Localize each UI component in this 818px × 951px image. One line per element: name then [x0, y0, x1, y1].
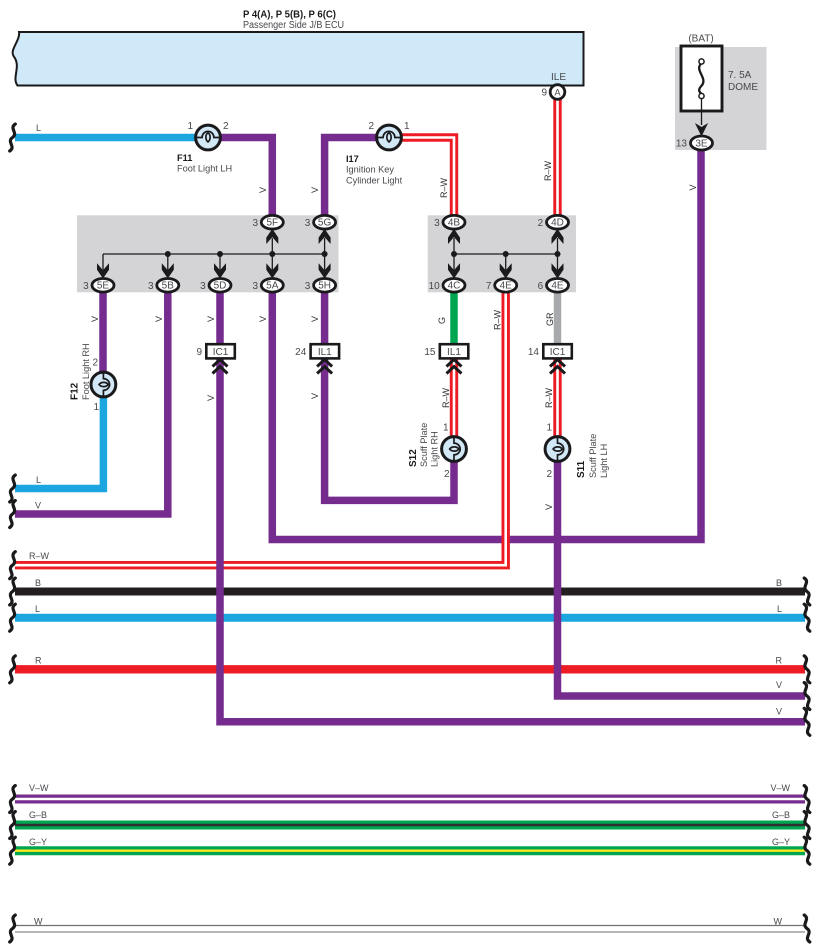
connector IC1 pin9: [196, 344, 234, 358]
svg-text:IC1: IC1: [550, 347, 566, 358]
wire F11 pin2 to 5F (V, purple): [220, 138, 272, 217]
connector 5G: [305, 215, 336, 229]
svg-text:B: B: [776, 578, 782, 588]
svg-text:L: L: [36, 475, 41, 485]
connector IC1 pin14: [528, 344, 572, 358]
svg-text:V: V: [35, 501, 41, 511]
break symbol right, bus R: [804, 656, 810, 683]
break symbol right, bus V lower: [804, 708, 810, 735]
wire 4E pin6 to IC1 (GR, gray): [554, 291, 562, 345]
svg-text:G–B: G–B: [772, 810, 790, 820]
lamp S11: [545, 437, 570, 462]
wire stub to 5H: [324, 254, 326, 270]
svg-text:G–B: G–B: [29, 810, 47, 820]
wire ILE A to 4D (R-W): [553, 99, 561, 216]
svg-text:7. 5A: 7. 5A: [728, 70, 752, 81]
svg-text:4E: 4E: [551, 281, 564, 292]
connector IL1 pin15: [424, 344, 468, 358]
wire stub to 4E pin6: [557, 254, 559, 270]
svg-text:S11: S11: [576, 460, 587, 478]
lamp S12: [442, 437, 467, 462]
svg-text:GR: GR: [545, 312, 555, 326]
break symbol left, bus W: [10, 915, 16, 942]
break symbol left, bus L: [10, 604, 16, 631]
junction dot 5B branch: [165, 251, 171, 257]
break symbol left, bus V-W: [10, 786, 16, 813]
svg-text:W: W: [34, 917, 43, 927]
svg-text:DOME: DOME: [728, 82, 758, 93]
break symbol right, bus G-Y: [804, 837, 810, 864]
arrow into 5H: [319, 263, 331, 278]
connector IL1 pin24: [295, 344, 339, 358]
connector 4E pin6: [538, 279, 569, 293]
chevron below IC1 pin9: [213, 360, 228, 374]
svg-text:3: 3: [305, 218, 311, 229]
svg-text:24: 24: [295, 347, 307, 358]
svg-text:L: L: [36, 123, 41, 133]
arrow into 4E pin6: [552, 263, 564, 278]
wire bus G-B: [15, 821, 805, 830]
svg-text:5D: 5D: [214, 281, 227, 292]
break symbol right, bus V-W: [804, 786, 810, 813]
node A circle (ILE): [541, 85, 564, 100]
wire 5A to DOME fuse (V, purple): [272, 149, 701, 540]
arrow into 5D: [214, 263, 226, 278]
wire bus G-Y: [15, 846, 805, 855]
svg-text:V: V: [310, 187, 320, 193]
connector block right (gray): [428, 215, 576, 292]
svg-text:V: V: [206, 395, 216, 401]
svg-text:4C: 4C: [448, 281, 461, 292]
svg-text:V: V: [154, 316, 164, 322]
svg-text:2: 2: [546, 469, 552, 480]
arrow into 4C: [448, 263, 460, 278]
svg-text:3: 3: [83, 281, 89, 292]
junction dot 4D/4E branch: [555, 251, 561, 257]
svg-text:G: G: [437, 317, 447, 324]
svg-text:W: W: [774, 917, 783, 927]
fuse block background (gray): [675, 47, 767, 150]
wire stub to 5G: [324, 238, 326, 254]
chevron below IL1 pin15: [447, 360, 462, 374]
svg-text:L: L: [35, 604, 40, 614]
wire bus B (black): [15, 588, 805, 596]
svg-text:13: 13: [676, 139, 688, 150]
svg-text:4B: 4B: [448, 218, 461, 229]
svg-text:1: 1: [404, 121, 410, 132]
svg-text:5F: 5F: [266, 218, 278, 229]
svg-text:1: 1: [443, 423, 449, 434]
wire F12 pin1 to left edge (L, blue): [15, 397, 103, 489]
wire bus L (blue): [15, 614, 805, 622]
wire stub to 5F: [271, 238, 273, 254]
svg-text:R–W: R–W: [441, 387, 451, 408]
connector 4B: [434, 215, 465, 229]
break symbol left, bus G-Y: [10, 837, 16, 864]
svg-text:V: V: [90, 316, 100, 322]
svg-text:P 4(A), P 5(B), P 6(C): P 4(A), P 5(B), P 6(C): [243, 10, 336, 21]
chevron below IL1 pin24: [317, 360, 332, 374]
svg-text:V: V: [258, 187, 268, 193]
junction dot 4E pin7 branch: [503, 251, 509, 257]
svg-text:R: R: [35, 656, 42, 666]
svg-text:IC1: IC1: [213, 347, 229, 358]
svg-text:G–Y: G–Y: [772, 837, 790, 847]
svg-text:3: 3: [252, 218, 258, 229]
svg-text:1: 1: [546, 423, 552, 434]
svg-text:IL1: IL1: [318, 347, 332, 358]
svg-text:Passenger Side J/B ECU: Passenger Side J/B ECU: [243, 20, 344, 31]
svg-text:3: 3: [148, 281, 154, 292]
wire 4E pin7 to left edge (R-W): [15, 291, 506, 565]
wire IL1 to S12 pin1 (R-W): [450, 358, 458, 437]
svg-text:2: 2: [92, 358, 98, 369]
svg-text:Ignition Key: Ignition Key: [346, 165, 394, 175]
svg-text:V: V: [688, 184, 698, 190]
connector 5E: [83, 279, 114, 293]
svg-text:Scuff Plate: Scuff Plate: [588, 434, 598, 478]
svg-text:Light LH: Light LH: [599, 444, 609, 478]
connector 5F: [252, 215, 283, 229]
arrow into 4E pin7: [500, 263, 512, 278]
junction dot 5G/5H branch: [322, 251, 328, 257]
wire internal bus left block: [103, 253, 325, 255]
svg-text:Cylinder Light: Cylinder Light: [346, 176, 403, 186]
wire IC1 to S11 pin1 (R-W): [553, 358, 561, 437]
svg-text:Scuff Plate: Scuff Plate: [419, 423, 429, 467]
svg-text:V: V: [258, 316, 268, 322]
connector 4D: [538, 215, 569, 229]
arrow into 5B: [162, 263, 174, 278]
svg-text:I17: I17: [346, 154, 359, 164]
svg-text:G–Y: G–Y: [29, 837, 47, 847]
arrow into 5E: [97, 263, 109, 278]
break symbol right, bus V upper: [804, 683, 810, 710]
connector 3E: [676, 136, 713, 150]
svg-text:Foot Light LH: Foot Light LH: [177, 164, 232, 174]
arrow into 5A: [266, 263, 278, 278]
arrow into 5G: [319, 229, 331, 244]
svg-text:Light RH: Light RH: [430, 431, 440, 467]
svg-text:B: B: [35, 578, 41, 588]
svg-text:V: V: [206, 316, 216, 322]
svg-text:5H: 5H: [318, 281, 331, 292]
svg-text:R–W: R–W: [493, 309, 503, 330]
wire S11 pin2 to right edge (V, purple): [558, 461, 806, 696]
svg-text:R–W: R–W: [543, 160, 553, 181]
svg-text:3E: 3E: [695, 138, 708, 149]
connector 5D: [200, 279, 231, 293]
svg-text:L: L: [777, 604, 782, 614]
wire stub to 5D: [219, 254, 221, 270]
wire stub to 4E pin7: [505, 254, 507, 270]
svg-text:R–W: R–W: [544, 387, 554, 408]
wire bus R (red): [15, 665, 805, 673]
svg-text:3: 3: [305, 281, 311, 292]
wire internal bus right block: [454, 253, 558, 255]
svg-text:V: V: [776, 680, 782, 690]
break symbol left, bus R: [10, 656, 16, 683]
svg-text:R–W: R–W: [439, 177, 449, 198]
svg-text:3: 3: [434, 218, 440, 229]
svg-text:2: 2: [444, 469, 450, 480]
wire 4C to IL1 (G, green): [450, 291, 458, 345]
wire I17 pin1 to 4B (R-W): [401, 138, 454, 217]
svg-text:A: A: [554, 88, 560, 98]
junction dot 5F/5A branch: [269, 251, 275, 257]
break symbol left, wire L from F12: [10, 475, 16, 502]
break symbol left, wire L top: [10, 124, 16, 151]
break symbol right, bus W: [804, 915, 810, 942]
svg-text:3: 3: [252, 281, 258, 292]
svg-text:R: R: [776, 656, 783, 666]
break symbol right, bus B: [804, 578, 810, 605]
wire stub to 4C: [453, 254, 455, 270]
Passenger Side J/B ECU box: [13, 32, 584, 86]
break symbol right, bus L: [804, 604, 810, 631]
junction dot 5D branch: [217, 251, 223, 257]
svg-text:V–W: V–W: [29, 783, 49, 793]
break symbol left, bus B: [10, 578, 16, 605]
connector 5A: [252, 279, 283, 293]
break symbol right, bus G-B: [804, 812, 810, 839]
connector 5H: [305, 279, 336, 293]
svg-text:9: 9: [196, 347, 202, 358]
svg-text:V: V: [310, 393, 320, 399]
svg-text:5A: 5A: [266, 281, 279, 292]
svg-text:6: 6: [538, 281, 544, 292]
wire stub to 4D: [557, 238, 559, 254]
wire L to F11 pin1 (blue): [15, 134, 196, 142]
break symbol left, bus G-B: [10, 812, 16, 839]
svg-text:2: 2: [538, 218, 544, 229]
svg-text:10: 10: [429, 281, 441, 292]
wire I17 pin2 to 5G (V, purple): [325, 138, 377, 217]
svg-text:15: 15: [424, 347, 436, 358]
svg-text:1: 1: [93, 402, 99, 413]
svg-text:5E: 5E: [97, 281, 110, 292]
svg-text:1: 1: [187, 121, 193, 132]
wire 5H to S12 pin2 (V, purple): [325, 291, 454, 500]
svg-text:S12: S12: [408, 449, 419, 467]
wire bus V-W: [15, 795, 805, 804]
svg-text:5G: 5G: [318, 218, 332, 229]
break symbol left, wire R-W: [10, 552, 16, 579]
svg-text:ILE: ILE: [551, 72, 566, 83]
svg-text:4E: 4E: [500, 281, 513, 292]
svg-text:2: 2: [368, 121, 374, 132]
svg-text:V: V: [776, 707, 782, 717]
lamp F11: [196, 125, 221, 150]
break symbol left, wire V from 5B: [10, 501, 16, 528]
chevron below IC1 pin14: [550, 360, 565, 374]
connector 5B: [148, 279, 179, 293]
arrow into 4D: [552, 229, 564, 244]
wire 5E to F12 (V, purple): [99, 291, 107, 372]
svg-text:3: 3: [200, 281, 206, 292]
wire bus W: [15, 925, 805, 927]
junction dot 4B/4C branch: [451, 251, 457, 257]
svg-text:V: V: [310, 316, 320, 322]
wire stub to 5A: [271, 254, 273, 270]
fuse DOME 7.5A: [681, 46, 722, 137]
wire 5B to left edge (V, purple): [15, 291, 168, 514]
svg-text:4D: 4D: [551, 218, 564, 229]
arrow into 5F: [266, 229, 278, 244]
lamp I17: [377, 125, 402, 150]
connector 4E pin7: [486, 279, 517, 293]
svg-text:R–W: R–W: [29, 551, 50, 561]
lamp F12: [91, 372, 116, 397]
svg-text:V: V: [544, 504, 554, 510]
svg-text:2: 2: [223, 121, 229, 132]
connector block left (gray): [77, 215, 339, 292]
svg-text:IL1: IL1: [447, 347, 461, 358]
svg-text:5B: 5B: [162, 281, 175, 292]
svg-text:F11: F11: [177, 153, 192, 163]
wire 5D to right edge (V, purple): [220, 291, 805, 722]
svg-text:Foot Light RH: Foot Light RH: [81, 343, 91, 400]
svg-text:14: 14: [528, 347, 540, 358]
wire stub to 5B: [167, 254, 169, 270]
wire stub to 5E: [102, 254, 104, 270]
wire stub to 4B: [453, 238, 455, 254]
svg-text:V–W: V–W: [770, 783, 790, 793]
connector 4C: [429, 279, 465, 293]
svg-text:(BAT): (BAT): [688, 34, 713, 45]
svg-text:F12: F12: [70, 382, 81, 400]
svg-text:9: 9: [541, 88, 547, 99]
svg-text:7: 7: [486, 281, 492, 292]
arrow into 4B: [448, 229, 460, 244]
